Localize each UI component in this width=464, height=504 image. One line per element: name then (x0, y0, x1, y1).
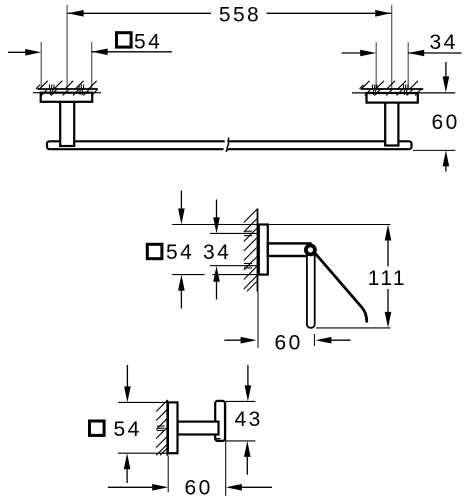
svg-text:111: 111 (368, 267, 407, 290)
dim 54 bottom up arrow line (126, 469, 128, 483)
dim 60 top up arrow line (445, 166, 447, 171)
wall line lower left (33, 92, 101, 94)
dim 43 up arrow line (246, 457, 248, 475)
paper holder flange plate (259, 225, 268, 275)
rail bottom reference line right (413, 149, 455, 151)
dim square54 top left arrow line (8, 51, 26, 53)
hook flange plate (168, 402, 178, 453)
dimension 558 line right part (267, 12, 392, 14)
dim 60 bottom left arrowhead (152, 484, 168, 491)
rail break mark white gap (224, 138, 227, 152)
dimension 111 down arrowhead (385, 312, 392, 328)
square symbol 54 bottom (90, 421, 105, 435)
dimension 43 extension bottom (226, 440, 256, 442)
wall extension line mid down (257, 292, 259, 349)
dim 60 bottom right arrowhead (226, 484, 242, 491)
dim 54 mid up arrow line (180, 290, 182, 308)
dim 54 bottom down arrowhead (124, 386, 131, 402)
dim 60 top down arrow line (445, 62, 447, 77)
dim 34 mid up arrowhead (213, 266, 220, 282)
extension line flange bottom mid right part (213, 274, 259, 276)
dim 60 top up arrowhead (443, 150, 450, 166)
dimension 558 left arrowhead (68, 10, 84, 17)
extension line left flange right edge (91, 42, 93, 89)
rail break mark (226, 138, 229, 152)
extension line bracket bottom mid (210, 265, 258, 267)
dim 34 top left arrow line (342, 52, 361, 54)
dimension 43 extension top (226, 400, 256, 402)
dim 60 mid right arrowhead (315, 337, 331, 344)
wall extension line bottom down (167, 456, 169, 493)
dim 60 mid right arrow line (331, 339, 350, 341)
dim 34 mid down arrowhead (213, 217, 220, 233)
hook plate step line (215, 438, 220, 440)
dim 34 top leader line (408, 52, 461, 54)
paper holder arm (268, 243, 311, 256)
hook stem (178, 422, 219, 435)
wall hatching left (36, 81, 98, 96)
dim 60 mid left arrow line (224, 339, 240, 341)
dim 60 mid left arrowhead (241, 337, 257, 344)
svg-text:34: 34 (203, 241, 231, 264)
extension line hook flange bottom (118, 452, 170, 454)
dimension 558 right arrowhead (375, 10, 391, 17)
dim 43 down arrow line (247, 365, 249, 385)
extension line right bracket right (407, 42, 409, 89)
svg-text:43: 43 (235, 408, 263, 431)
dim 60 bottom left arrow line (108, 486, 152, 488)
left post stem (60, 102, 74, 146)
svg-text:54: 54 (114, 418, 142, 441)
dim 54 mid up arrowhead (178, 275, 185, 291)
wall line lower right and 60-dim top reference (352, 92, 455, 94)
dim 34 top right arrowhead (408, 50, 424, 57)
extension line rod outer mid (313, 334, 315, 346)
wall hatching right (360, 81, 422, 96)
extension line bracket top mid (210, 232, 258, 234)
right post stem (385, 102, 398, 145)
dim 54 bottom up arrowhead (124, 453, 131, 469)
svg-text:34: 34 (430, 31, 458, 54)
extension line flange top / 111 top reference (172, 224, 390, 226)
rod bottom reference line (316, 327, 391, 329)
dimension 558 line left part (68, 12, 211, 14)
square symbol 54 mid (147, 244, 162, 258)
dim 34 mid down arrow line (216, 200, 218, 218)
svg-text:60: 60 (275, 331, 303, 354)
wall line upper left (37, 88, 97, 90)
dimension 111 line lower (387, 289, 389, 312)
hook plate (215, 401, 225, 441)
spring flap (314, 252, 367, 323)
extension line hook outer bottom (225, 402, 227, 497)
dimension 111 line upper (387, 241, 389, 267)
extension line flange bottom mid left part (172, 274, 204, 276)
extension line hook flange top (118, 401, 173, 403)
dim 54 mid down arrowhead (178, 209, 185, 225)
wall surface line bottom (166, 400, 168, 456)
paper roll rod (307, 247, 315, 328)
pivot ring (306, 245, 315, 254)
extension line left flange left edge (40, 42, 42, 89)
wall hatching bottom (156, 401, 167, 456)
dim square54 top left arrowhead (25, 49, 41, 56)
dimension 111 up arrowhead (385, 225, 392, 241)
dim square54 top right arrowhead (92, 49, 108, 56)
extension line right post centerline (391, 5, 393, 89)
square symbol 54 top (117, 33, 132, 47)
dim 60 top down arrowhead (443, 76, 450, 92)
dim 43 up arrowhead (244, 441, 251, 457)
extension line left post centerline (66, 5, 68, 89)
wall hatching mid (244, 209, 257, 291)
svg-text:60: 60 (432, 111, 460, 134)
towel bar rail (47, 141, 412, 149)
extension line right bracket left (375, 42, 377, 89)
dim 54 mid down arrow line (180, 191, 182, 210)
svg-text:558: 558 (219, 3, 261, 26)
dim 54 bottom down arrow line (126, 365, 128, 386)
svg-text:60: 60 (185, 477, 213, 500)
dim 60 bottom right arrow line (242, 486, 272, 488)
dim 34 mid up arrow line (216, 281, 218, 299)
dim square54 top leader line (92, 51, 172, 53)
svg-text:54: 54 (166, 241, 194, 264)
wall line upper right (361, 88, 423, 90)
dim 43 down arrowhead (245, 385, 252, 401)
dim 34 top left arrowhead (360, 50, 376, 57)
wall surface line mid (257, 209, 259, 292)
svg-text:54: 54 (134, 31, 162, 54)
right flange plate (367, 93, 418, 103)
left flange plate (41, 93, 92, 102)
